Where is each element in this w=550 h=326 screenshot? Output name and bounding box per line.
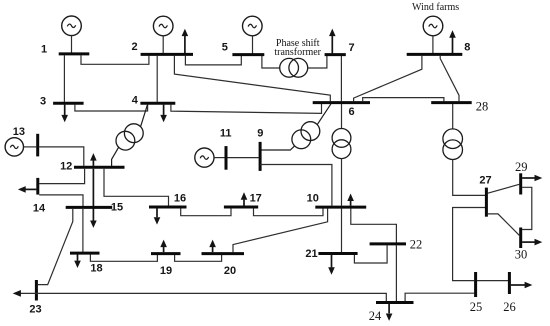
wire 24-25 bbox=[405, 293, 474, 301]
wire 11-9 bbox=[227, 157, 258, 159]
generator G2 bbox=[153, 16, 173, 53]
wire 1-3 bbox=[63, 55, 65, 102]
svg-text:29: 29 bbox=[515, 160, 528, 174]
wire transformer T6-9 to 9 bbox=[260, 146, 295, 150]
transformer T6-9 bbox=[292, 122, 320, 149]
wire 20-10 bbox=[233, 209, 328, 253]
bus 12 bbox=[74, 166, 125, 169]
svg-text:18: 18 bbox=[90, 263, 102, 275]
generator G11 bbox=[195, 148, 225, 167]
bus 2 bbox=[141, 53, 193, 56]
load arrow bus 19 bbox=[160, 240, 167, 253]
wire 6 to transformer T6-9 bbox=[317, 104, 331, 125]
svg-text:10: 10 bbox=[307, 192, 319, 204]
bus 15 bbox=[66, 206, 113, 209]
bus 14 bbox=[36, 178, 39, 195]
bus 16 bbox=[149, 206, 187, 209]
bus 13 bbox=[36, 134, 39, 157]
svg-text:20: 20 bbox=[224, 265, 236, 277]
load arrow bus 29 right bbox=[522, 175, 542, 182]
load arrow bus 30 right bbox=[522, 239, 542, 246]
load arrow bus 12 up bbox=[90, 153, 97, 166]
wire 6-28 bbox=[363, 98, 444, 102]
svg-text:28: 28 bbox=[476, 100, 489, 114]
bus 19 bbox=[151, 252, 181, 255]
svg-text:Wind farms: Wind farms bbox=[412, 2, 459, 13]
svg-text:26: 26 bbox=[503, 300, 516, 314]
wire 9-10 bbox=[260, 165, 332, 206]
wire 27-30 bbox=[488, 214, 520, 235]
wire 2-6 bbox=[174, 56, 330, 102]
wire 8-28 bbox=[440, 56, 459, 102]
wire 10-21 bbox=[341, 208, 343, 252]
bus 20 bbox=[202, 252, 245, 255]
wire 7-6 bbox=[340, 56, 342, 102]
wire 4 to transformer T4-12 bbox=[141, 105, 148, 127]
wire transformer T6-10 to 10 bbox=[341, 159, 343, 206]
load arrow bus 24 bbox=[386, 304, 393, 321]
bus 10 bbox=[315, 206, 366, 209]
phase shift transformer bbox=[280, 58, 308, 77]
wire 29-30 bbox=[522, 187, 532, 229]
load arrow bus 21 bbox=[328, 255, 335, 275]
svg-text:30: 30 bbox=[515, 248, 528, 262]
wire 15-23 bbox=[38, 209, 73, 285]
wire 5 to phase shift transformer bbox=[262, 56, 280, 68]
load arrow bus 20 bbox=[209, 240, 216, 253]
svg-text:23: 23 bbox=[29, 304, 41, 316]
svg-text:7: 7 bbox=[348, 42, 354, 54]
wire transformer T4-12 to 12 bbox=[112, 147, 119, 166]
svg-text:6: 6 bbox=[348, 106, 354, 118]
wire 12-14 bbox=[39, 169, 84, 184]
svg-text:25: 25 bbox=[470, 300, 483, 314]
svg-text:12: 12 bbox=[60, 160, 72, 172]
svg-text:17: 17 bbox=[250, 193, 262, 205]
svg-text:2: 2 bbox=[131, 41, 137, 53]
wire 1-2 bbox=[81, 55, 149, 64]
bus 25 bbox=[474, 272, 477, 297]
load arrow bus 16 bbox=[154, 208, 161, 224]
load arrow bus 10 bbox=[347, 194, 354, 206]
generator G5 bbox=[243, 16, 263, 54]
bus 11 bbox=[225, 146, 228, 170]
load arrow bus 26 right bbox=[511, 282, 533, 289]
wire 25-26 bbox=[477, 280, 508, 282]
bus 29 bbox=[519, 173, 522, 194]
svg-text:24: 24 bbox=[369, 309, 382, 323]
bus 7 bbox=[325, 53, 346, 56]
bus 9 bbox=[259, 142, 262, 171]
bus 3 bbox=[53, 102, 84, 105]
svg-text:27: 27 bbox=[479, 175, 491, 187]
load arrow bus 2 bbox=[182, 29, 189, 54]
bus 23 bbox=[35, 280, 38, 301]
load arrow bus 12-15 down bbox=[90, 169, 97, 228]
wire 21-22 bbox=[354, 245, 387, 263]
load arrow bus 18 bbox=[74, 254, 81, 268]
bus 5 bbox=[232, 53, 264, 56]
load arrow bus 7 bbox=[329, 29, 336, 54]
svg-text:14: 14 bbox=[33, 203, 46, 215]
transformer T4-12 bbox=[116, 124, 143, 150]
bus 24 bbox=[376, 301, 414, 304]
svg-text:1: 1 bbox=[41, 44, 47, 56]
bus 8 bbox=[407, 53, 463, 56]
svg-text:11: 11 bbox=[220, 128, 232, 140]
generator G1 bbox=[62, 16, 82, 53]
wire 22-24 bbox=[395, 245, 397, 301]
wire 6 to transformer T6-10 bbox=[341, 104, 343, 129]
wire 4-6 bbox=[171, 104, 322, 114]
wire 19-20 bbox=[175, 255, 222, 261]
label phase shift transformer bbox=[274, 38, 321, 58]
transformer T28 bbox=[443, 129, 463, 160]
svg-text:16: 16 bbox=[174, 193, 186, 205]
wire 10-22 bbox=[351, 209, 397, 243]
svg-text:15: 15 bbox=[111, 202, 123, 214]
wire 27-29 bbox=[488, 184, 520, 193]
wire 27-25 bbox=[453, 208, 485, 281]
bus 18 bbox=[70, 252, 100, 255]
wire transformer T28 to 27 bbox=[453, 160, 485, 196]
svg-text:22: 22 bbox=[410, 238, 423, 252]
bus 1 bbox=[59, 52, 90, 55]
transformer T6-10 bbox=[332, 129, 351, 159]
wire 12-16 bbox=[104, 169, 169, 206]
svg-text:9: 9 bbox=[257, 127, 263, 139]
wire 23-24 with arrow bbox=[13, 290, 387, 301]
bus 21 bbox=[318, 252, 357, 255]
svg-text:21: 21 bbox=[305, 248, 317, 260]
wire 13-12 bbox=[39, 147, 84, 166]
svg-text:5: 5 bbox=[222, 42, 228, 54]
svg-text:transformer: transformer bbox=[274, 47, 321, 58]
load arrow bus 4 bbox=[160, 105, 167, 123]
bus 17 bbox=[224, 206, 258, 209]
bus 27 bbox=[485, 188, 488, 217]
bus 4 bbox=[140, 102, 175, 105]
wire 18-19 bbox=[90, 255, 157, 262]
wire 17-10 bbox=[254, 208, 324, 215]
load arrow bus 3 bbox=[61, 105, 68, 123]
svg-text:13: 13 bbox=[13, 126, 25, 138]
svg-text:3: 3 bbox=[40, 96, 46, 108]
wire phase shift transformer to 7 bbox=[308, 56, 327, 68]
load arrow bus 8 bbox=[449, 30, 456, 53]
wire 3-4 bbox=[75, 105, 148, 112]
bus 30 bbox=[519, 228, 522, 249]
wire 8-6 bbox=[354, 56, 422, 102]
generator G13 bbox=[5, 138, 36, 156]
svg-text:19: 19 bbox=[160, 265, 172, 277]
wire 2-4 bbox=[156, 56, 158, 102]
svg-text:4: 4 bbox=[132, 95, 139, 107]
bus 26 bbox=[508, 272, 511, 294]
bus 22 bbox=[370, 242, 406, 245]
wire 28 to transformer T28 bbox=[452, 104, 454, 129]
load arrow bus 14 left bbox=[18, 186, 37, 193]
svg-text:8: 8 bbox=[464, 42, 470, 54]
wire 16-17 bbox=[181, 208, 231, 215]
wire 15-18 bbox=[82, 209, 84, 252]
wire 2-5 bbox=[185, 56, 241, 65]
bus 28 bbox=[431, 101, 472, 104]
bus 6 bbox=[313, 101, 370, 104]
wire 14-15 bbox=[39, 195, 83, 206]
load arrow bus 17 bbox=[241, 192, 248, 205]
generator G8 bbox=[423, 16, 443, 53]
